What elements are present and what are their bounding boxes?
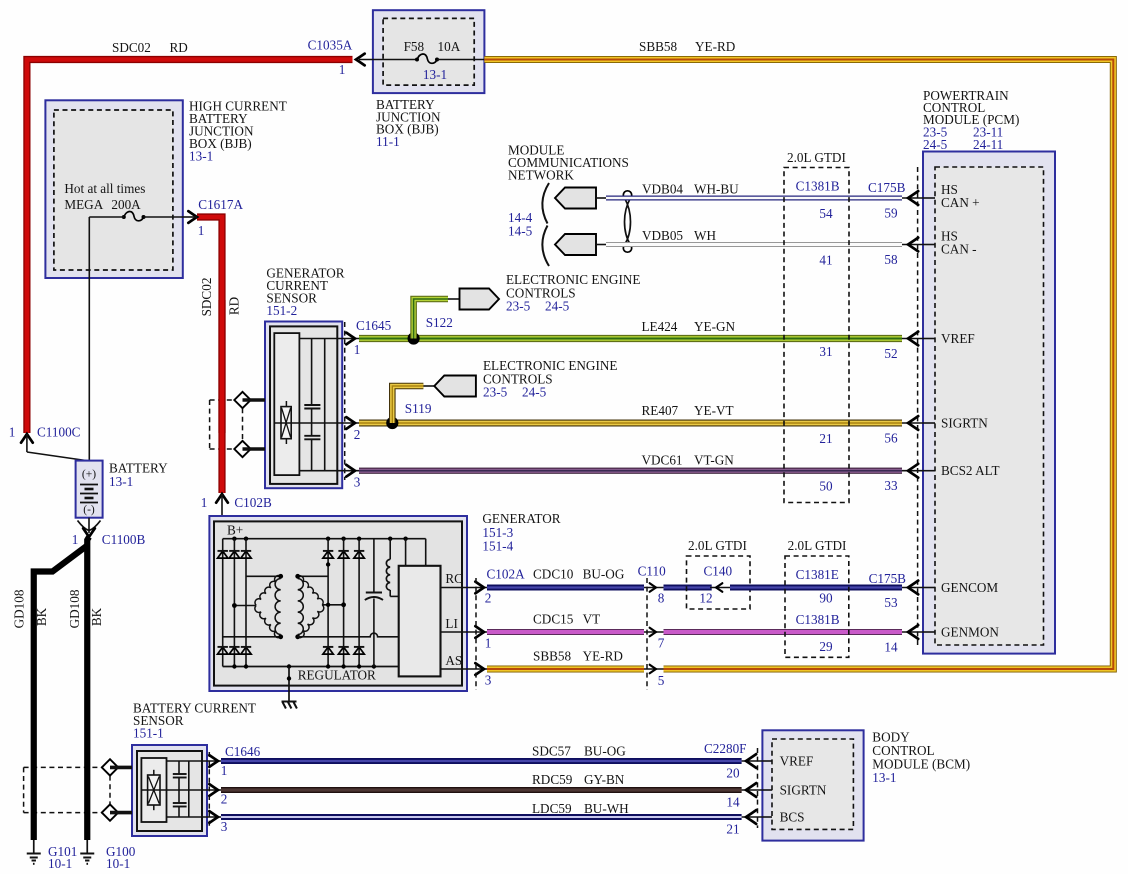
battery sensor pin 2 bbox=[202, 784, 227, 806]
wire VDB05 WH bbox=[606, 228, 902, 245]
engine controls connector (S119) bbox=[434, 358, 617, 400]
svg-text:GENCOM: GENCOM bbox=[941, 580, 998, 595]
svg-text:24-5: 24-5 bbox=[522, 385, 547, 400]
svg-text:8: 8 bbox=[658, 591, 665, 606]
wire CDC10 BU-OG bbox=[487, 567, 644, 588]
svg-text:YE-RD: YE-RD bbox=[583, 649, 623, 664]
connector C102A dashed line bbox=[475, 578, 477, 690]
svg-text:VDB05: VDB05 bbox=[642, 228, 683, 243]
connector C1035A bbox=[308, 38, 365, 78]
svg-text:53: 53 bbox=[884, 595, 898, 610]
battery sensor clamp diamond upper bbox=[102, 759, 132, 775]
wire SBB58 YE-RD (fuse to generator, around border) bbox=[484, 39, 1113, 669]
generator pin LI bbox=[441, 616, 492, 651]
powertrain control module (PCM) box bbox=[918, 88, 1055, 654]
wire RDC59 GY-BN bbox=[221, 772, 742, 790]
svg-text:52: 52 bbox=[884, 346, 897, 361]
svg-text:10-1: 10-1 bbox=[48, 856, 72, 871]
connector C110 dashed line bbox=[638, 564, 666, 691]
connector C1617A bbox=[182, 197, 244, 433]
svg-text:151-1: 151-1 bbox=[133, 726, 164, 741]
svg-text:S119: S119 bbox=[405, 401, 432, 416]
svg-text:GD108: GD108 bbox=[12, 589, 27, 628]
svg-text:WH: WH bbox=[694, 228, 716, 243]
svg-text:58: 58 bbox=[884, 252, 898, 267]
svg-text:SDC02: SDC02 bbox=[199, 278, 214, 317]
svg-text:2.0L GTDI: 2.0L GTDI bbox=[788, 538, 847, 553]
sensor pin 3 arrow bbox=[337, 465, 360, 490]
wire CDC15 VT bbox=[487, 612, 644, 633]
PCM pin 56 SIGRTN bbox=[884, 416, 988, 446]
svg-text:GD108: GD108 bbox=[67, 589, 82, 628]
svg-text:C1381E: C1381E bbox=[796, 567, 839, 582]
connector C1100C bbox=[9, 425, 90, 462]
svg-text:SIGRTN: SIGRTN bbox=[780, 783, 827, 798]
battery current sensor box bbox=[132, 701, 256, 837]
svg-text:1: 1 bbox=[221, 763, 228, 778]
svg-text:3: 3 bbox=[354, 475, 361, 490]
svg-text:20: 20 bbox=[726, 766, 740, 781]
svg-text:13-1: 13-1 bbox=[872, 770, 896, 785]
ground G100 bbox=[80, 840, 135, 871]
svg-text:CAN -: CAN - bbox=[941, 242, 977, 257]
wire RE407 branch to engine controls bbox=[392, 386, 434, 423]
svg-text:F58: F58 bbox=[404, 39, 425, 54]
svg-text:YE-VT: YE-VT bbox=[694, 403, 734, 418]
svg-text:C175B: C175B bbox=[868, 180, 906, 195]
battery sensor clamp diamond lower bbox=[102, 804, 132, 820]
battery sensor pin 1 bbox=[202, 755, 227, 778]
svg-text:13-1: 13-1 bbox=[189, 149, 213, 164]
svg-text:LDC59: LDC59 bbox=[532, 801, 572, 816]
svg-text:3: 3 bbox=[221, 819, 228, 834]
svg-text:VREF: VREF bbox=[780, 754, 814, 769]
svg-text:C1381B: C1381B bbox=[796, 179, 840, 194]
svg-text:29: 29 bbox=[819, 639, 833, 654]
connector C1381E/C1381B 2.0L GTDI box bbox=[785, 538, 849, 657]
svg-text:LE424: LE424 bbox=[642, 319, 678, 334]
svg-text:SDC02: SDC02 bbox=[112, 40, 151, 55]
wire VDC61 VT-GN bbox=[359, 453, 902, 471]
high current battery junction box (BJB) bbox=[45, 99, 286, 462]
svg-text:YE-RD: YE-RD bbox=[695, 39, 735, 54]
wire LDC59 BU-WH bbox=[221, 801, 742, 817]
svg-text:56: 56 bbox=[884, 431, 898, 446]
generator field inductor bbox=[386, 539, 398, 597]
svg-text:RD: RD bbox=[227, 297, 242, 315]
svg-text:1: 1 bbox=[485, 636, 492, 651]
svg-text:C110: C110 bbox=[638, 564, 666, 579]
svg-text:BU-OG: BU-OG bbox=[583, 567, 625, 582]
svg-text:1: 1 bbox=[201, 495, 208, 510]
svg-text:RE407: RE407 bbox=[642, 403, 679, 418]
svg-text:1: 1 bbox=[339, 62, 346, 77]
PCM pin 14 GENMON bbox=[884, 625, 999, 655]
svg-text:1: 1 bbox=[198, 223, 205, 238]
engine controls connector (S122) bbox=[460, 272, 641, 314]
wire SDC57 BU-OG bbox=[221, 744, 742, 762]
svg-text:CDC15: CDC15 bbox=[533, 612, 574, 627]
svg-text:BU-OG: BU-OG bbox=[584, 744, 626, 759]
svg-text:(-): (-) bbox=[83, 504, 95, 516]
svg-text:200A: 200A bbox=[111, 197, 141, 212]
PCM pin 58 HS CAN- bbox=[884, 229, 976, 268]
wire VDB04 WH-BU bbox=[606, 182, 902, 199]
generator bottom bus bbox=[223, 664, 399, 668]
svg-text:33: 33 bbox=[884, 478, 898, 493]
PCM pin 33 BCS2 ALT bbox=[884, 463, 999, 493]
svg-text:41: 41 bbox=[819, 253, 832, 268]
svg-text:SIGRTN: SIGRTN bbox=[941, 416, 988, 431]
svg-text:2: 2 bbox=[354, 427, 361, 442]
svg-text:24-5: 24-5 bbox=[545, 299, 570, 314]
svg-text:2.0L GTDI: 2.0L GTDI bbox=[787, 150, 846, 165]
svg-text:BCS: BCS bbox=[780, 810, 805, 825]
svg-text:23-5: 23-5 bbox=[506, 299, 531, 314]
svg-text:S122: S122 bbox=[426, 315, 453, 330]
battery junction box (BJB) fuse F58 bbox=[359, 10, 484, 149]
svg-text:C102B: C102B bbox=[234, 495, 272, 510]
body control module (BCM) box bbox=[704, 730, 970, 841]
svg-text:SBB58: SBB58 bbox=[533, 649, 572, 664]
splice S119 bbox=[386, 401, 432, 429]
svg-text:11-1: 11-1 bbox=[376, 134, 400, 149]
generator capacitor bbox=[365, 539, 383, 667]
svg-text:MEGA: MEGA bbox=[64, 197, 103, 212]
splice S122 bbox=[408, 315, 453, 345]
svg-text:10A: 10A bbox=[438, 39, 461, 54]
svg-text:21: 21 bbox=[819, 431, 832, 446]
svg-text:3: 3 bbox=[485, 673, 492, 688]
svg-text:1: 1 bbox=[72, 532, 79, 547]
svg-text:REGULATOR: REGULATOR bbox=[298, 668, 376, 683]
svg-text:5: 5 bbox=[658, 673, 665, 688]
svg-text:12: 12 bbox=[699, 591, 712, 606]
generator pin AS bbox=[441, 653, 492, 688]
wire SDC02 RD vertical to generator bbox=[199, 278, 242, 493]
svg-text:WH-BU: WH-BU bbox=[694, 182, 739, 197]
svg-text:C1035A: C1035A bbox=[308, 38, 353, 53]
svg-text:VT-GN: VT-GN bbox=[694, 453, 734, 468]
svg-text:151-4: 151-4 bbox=[482, 539, 513, 554]
sensor pin 1 arrow C1645 bbox=[337, 318, 391, 357]
svg-text:BK: BK bbox=[89, 607, 104, 626]
svg-text:13-1: 13-1 bbox=[423, 67, 447, 82]
svg-text:59: 59 bbox=[884, 206, 898, 221]
svg-text:CAN +: CAN + bbox=[941, 195, 980, 210]
svg-text:31: 31 bbox=[819, 344, 832, 359]
wire LE424 YE-GN bbox=[359, 319, 902, 339]
svg-text:GENERATOR: GENERATOR bbox=[482, 511, 560, 526]
svg-text:RD: RD bbox=[170, 40, 188, 55]
PCM pin 59 HS CAN+ bbox=[884, 182, 979, 221]
svg-text:54: 54 bbox=[819, 206, 833, 221]
network connector lower bbox=[555, 234, 606, 255]
svg-text:50: 50 bbox=[819, 479, 833, 494]
svg-text:2: 2 bbox=[485, 591, 492, 606]
svg-text:C140: C140 bbox=[704, 564, 733, 579]
sensor pin 2 arrow bbox=[337, 417, 360, 442]
generator B+ bus bbox=[223, 494, 426, 541]
svg-text:LI: LI bbox=[445, 616, 457, 631]
connector C110 pin 7 bbox=[644, 628, 902, 651]
svg-text:CDC10: CDC10 bbox=[533, 567, 574, 582]
PCM pin 52 VREF bbox=[884, 331, 974, 361]
wire RE407 YE-VT bbox=[359, 403, 902, 423]
sensor clamp diamond upper bbox=[234, 392, 265, 408]
generator ground bbox=[282, 667, 297, 709]
generator stator winding right bbox=[295, 574, 398, 639]
network brace bbox=[542, 183, 549, 266]
svg-text:1: 1 bbox=[354, 342, 361, 357]
svg-text:(+): (+) bbox=[82, 469, 96, 481]
BCM pin 20 VREF bbox=[726, 754, 813, 781]
connector C102B bbox=[201, 494, 272, 539]
svg-text:BCS2 ALT: BCS2 ALT bbox=[941, 463, 1000, 478]
PCM pin 53 GENCOM bbox=[884, 580, 998, 610]
BCM pin 14 SIGRTN bbox=[726, 783, 827, 810]
svg-text:C1617A: C1617A bbox=[198, 197, 243, 212]
svg-text:24-11: 24-11 bbox=[973, 137, 1003, 152]
svg-text:24-5: 24-5 bbox=[923, 137, 948, 152]
svg-text:VDC61: VDC61 bbox=[642, 453, 683, 468]
svg-text:151-2: 151-2 bbox=[266, 303, 297, 318]
inline connector C140 2.0L GTDI box bbox=[687, 538, 903, 609]
generator current sensor box bbox=[265, 266, 345, 489]
svg-text:14-5: 14-5 bbox=[508, 224, 533, 239]
svg-text:7: 7 bbox=[658, 636, 665, 651]
svg-text:C2280F: C2280F bbox=[704, 741, 747, 756]
svg-text:RDC59: RDC59 bbox=[532, 772, 573, 787]
svg-text:90: 90 bbox=[819, 591, 833, 606]
svg-text:VREF: VREF bbox=[941, 331, 975, 346]
svg-text:13-1: 13-1 bbox=[109, 474, 133, 489]
generator rectifier legs and diodes bbox=[218, 539, 365, 667]
connector C110 pin 5 bbox=[644, 665, 665, 688]
battery sensor pin 3 bbox=[202, 811, 228, 834]
svg-text:C1100C: C1100C bbox=[37, 425, 81, 440]
battery B1 bbox=[76, 461, 168, 518]
svg-text:VDB04: VDB04 bbox=[642, 182, 683, 197]
twisted pair symbol bbox=[623, 191, 631, 252]
wire SDC02 RD (battery feed) bbox=[27, 40, 353, 433]
wire LE424 branch to engine controls bbox=[414, 299, 460, 339]
generator box bbox=[209, 511, 560, 691]
svg-text:B+: B+ bbox=[227, 523, 243, 538]
wire GD108 BK battery ground cables bbox=[12, 537, 105, 840]
svg-text:C175B: C175B bbox=[869, 571, 907, 586]
svg-text:AS: AS bbox=[445, 653, 462, 668]
network connector upper bbox=[555, 188, 606, 209]
ground G101 bbox=[27, 840, 78, 871]
svg-text:2: 2 bbox=[221, 792, 228, 807]
svg-text:14: 14 bbox=[726, 795, 740, 810]
svg-text:BU-WH: BU-WH bbox=[584, 801, 629, 816]
generator pin RC bbox=[441, 567, 526, 606]
svg-text:GY-BN: GY-BN bbox=[584, 772, 625, 787]
svg-text:23-5: 23-5 bbox=[483, 385, 508, 400]
connector C175B lower label bbox=[869, 571, 907, 586]
connector C1100B bbox=[72, 518, 146, 547]
svg-text:SBB58: SBB58 bbox=[639, 39, 678, 54]
upper 2.0L GTDI connector C1381B box bbox=[784, 150, 849, 503]
connector C1646 dashed line bbox=[209, 744, 260, 828]
sensor clamp dashed links bbox=[210, 400, 243, 449]
svg-text:YE-GN: YE-GN bbox=[694, 319, 735, 334]
svg-text:BK: BK bbox=[34, 607, 49, 626]
svg-text:C1100B: C1100B bbox=[102, 532, 146, 547]
sensor clamp diamond lower bbox=[234, 441, 265, 457]
generator stator winding left bbox=[223, 574, 283, 639]
svg-text:1: 1 bbox=[9, 425, 16, 440]
connector C175B upper label bbox=[868, 180, 906, 195]
svg-text:VT: VT bbox=[583, 612, 601, 627]
svg-text:C1381B: C1381B bbox=[796, 612, 840, 627]
svg-text:14: 14 bbox=[884, 640, 898, 655]
svg-text:2.0L GTDI: 2.0L GTDI bbox=[688, 538, 747, 553]
wire SBB58 YE-RD from AS bbox=[487, 649, 644, 670]
svg-text:10-1: 10-1 bbox=[106, 856, 130, 871]
svg-text:GENMON: GENMON bbox=[941, 625, 999, 640]
svg-text:RC: RC bbox=[445, 571, 463, 586]
svg-text:SDC57: SDC57 bbox=[532, 744, 571, 759]
generator regulator bbox=[298, 539, 441, 683]
battery sensor clamp dashed links bbox=[24, 767, 110, 812]
connector C110 pin 8 bbox=[644, 583, 712, 605]
svg-text:C102A: C102A bbox=[487, 567, 526, 582]
module communications network label bbox=[508, 143, 629, 239]
svg-text:NETWORK: NETWORK bbox=[508, 168, 574, 183]
svg-text:C1645: C1645 bbox=[356, 318, 392, 333]
svg-text:C1646: C1646 bbox=[225, 744, 261, 759]
BCM pin 21 BCS bbox=[726, 810, 804, 837]
svg-text:Hot at all times: Hot at all times bbox=[64, 181, 145, 196]
svg-text:21: 21 bbox=[726, 822, 739, 837]
connector C1645 dashed line bbox=[344, 322, 346, 480]
